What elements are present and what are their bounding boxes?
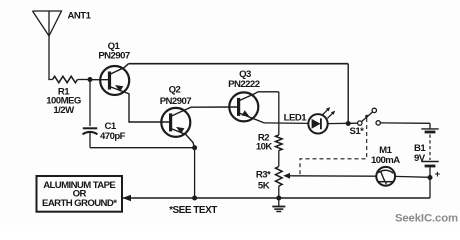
svg-text:1/2W: 1/2W	[53, 105, 75, 116]
LED LED1	[308, 114, 327, 133]
svg-text:100mA: 100mA	[371, 155, 400, 166]
antenna ANT1	[33, 11, 62, 36]
svg-text:R3*: R3*	[256, 170, 271, 181]
wire antenna lead	[49, 36, 53, 80]
R3 wiper arrow	[290, 175, 377, 177]
wire junction down to bottom rail	[194, 148, 196, 198]
svg-text:PN2907: PN2907	[98, 51, 130, 62]
arrow into ground box	[123, 195, 132, 201]
switch S1	[358, 108, 381, 125]
node R1/Q1/C1 junction	[88, 77, 93, 82]
wire LED1 to S1	[328, 122, 358, 124]
node C1/Q2 emitter junction	[192, 145, 197, 150]
wire S1 to B1	[381, 122, 431, 124]
wire B1 junction down to bottom rail	[429, 178, 431, 199]
transistor Q1 PN2907	[92, 64, 171, 122]
svg-text:PN2222: PN2222	[228, 79, 260, 90]
transistor Q2 PN2907	[161, 107, 238, 148]
wire bottom rail	[123, 197, 431, 199]
svg-text:Q2: Q2	[169, 85, 181, 96]
wire M1 to B1 junction	[395, 175, 430, 178]
mechanical link S1 to R3 (dashed)	[300, 118, 367, 176]
node rail/S1 junction	[346, 121, 351, 126]
node bottom rail junction	[192, 196, 197, 201]
wire C1 bottom to Q2 emitter junction	[90, 147, 195, 149]
wire junction to C1	[89, 80, 91, 127]
resistor R1	[53, 76, 78, 82]
LED1 light arrows	[323, 108, 335, 118]
svg-text:EARTH GROUND*: EARTH GROUND*	[42, 198, 117, 209]
svg-text:5K: 5K	[258, 181, 270, 192]
svg-text:470pF: 470pF	[100, 131, 126, 142]
svg-text:ANT1: ANT1	[68, 11, 92, 22]
svg-text:9V: 9V	[414, 153, 426, 164]
resistor R3 potentiometer	[276, 167, 283, 187]
meter M1	[376, 167, 395, 186]
svg-text:10K: 10K	[256, 142, 273, 153]
resistor R2	[276, 135, 283, 151]
svg-text:PN2907: PN2907	[160, 96, 192, 107]
box ALUMINUM TAPE OR EARTH GROUND	[37, 176, 123, 212]
wire Q3 emitter to LED1	[264, 122, 308, 125]
svg-text:LED1: LED1	[284, 113, 308, 124]
wire top rail down to S1	[347, 64, 349, 124]
wire R2 to R3	[278, 151, 280, 167]
battery B1	[421, 123, 438, 177]
transistor Q3 PN2222	[229, 92, 278, 123]
node B1/M1/rail junction	[428, 175, 433, 180]
svg-text:S1*: S1*	[350, 126, 365, 137]
ground symbol	[272, 198, 285, 212]
svg-text:*SEE TEXT: *SEE TEXT	[169, 205, 217, 216]
node R3 bottom rail junction	[276, 196, 281, 201]
wire Q3 collector down to R2	[278, 92, 280, 135]
capacitor C1	[83, 128, 98, 147]
svg-text:SeekIC.com: SeekIC.com	[395, 213, 458, 225]
wire top rail	[129, 63, 349, 65]
